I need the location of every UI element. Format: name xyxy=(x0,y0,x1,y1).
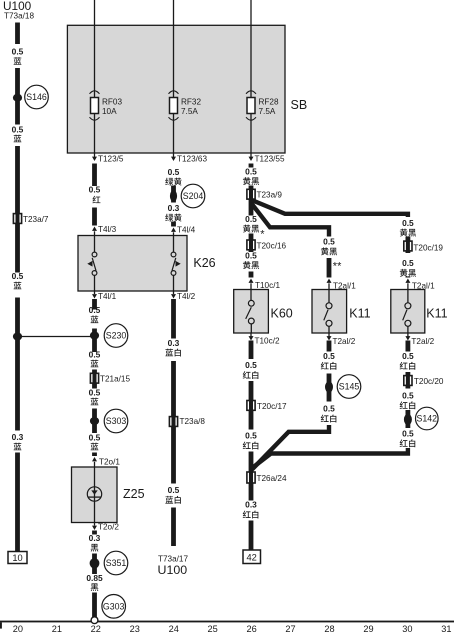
terminal T123/55 exit arrow xyxy=(249,153,285,164)
wire label 0.5 blue xyxy=(12,47,24,65)
svg-text:T123/5: T123/5 xyxy=(98,155,124,164)
terminal T123/63 exit arrow xyxy=(171,153,207,164)
terminal T73a/17 label xyxy=(158,555,188,564)
svg-text:0.3: 0.3 xyxy=(89,533,101,543)
wire col2 to Z25 xyxy=(92,453,97,457)
junction to S230 xyxy=(13,333,22,341)
wire label 0.3 black xyxy=(89,533,101,552)
svg-text:T4l/3: T4l/3 xyxy=(98,225,117,234)
label K60 xyxy=(271,306,293,320)
svg-text:0.5: 0.5 xyxy=(245,431,257,441)
svg-text:24: 24 xyxy=(169,624,179,634)
connector T23a/7 xyxy=(13,212,49,224)
junction S303 xyxy=(90,417,99,425)
svg-text:T2o/2: T2o/2 xyxy=(98,523,119,532)
grid numbers 20-31 xyxy=(13,624,452,634)
junction S230 xyxy=(90,332,99,340)
svg-text:T20c/17: T20c/17 xyxy=(257,402,287,411)
connector T21a/15 xyxy=(90,372,130,384)
wire col5 to K11 xyxy=(327,258,332,278)
svg-text:T2al/2: T2al/2 xyxy=(333,337,356,346)
svg-text:Z25: Z25 xyxy=(123,487,145,501)
ground rail xyxy=(0,621,454,623)
wire col6 to S142 xyxy=(406,410,411,428)
terminal T2al/1 entry arrow (right K11) xyxy=(405,279,435,291)
svg-text:0.5: 0.5 xyxy=(245,360,257,370)
connector T20c/20 xyxy=(404,374,444,386)
wire col4 to terminal 42 xyxy=(249,521,254,551)
wire label 0.5 yellow-black xyxy=(243,167,259,186)
wire label 0.5 yellow-black xyxy=(243,251,259,270)
svg-text:T23a/8: T23a/8 xyxy=(180,417,206,426)
wire col3 blue-white segment xyxy=(171,299,176,339)
terminal T2al/2 exit arrow (middle K11) xyxy=(327,333,356,346)
wire label 0.5 red-white xyxy=(400,351,416,370)
svg-text:22: 22 xyxy=(91,624,101,634)
left edge tick xyxy=(0,622,2,628)
svg-text:0.3: 0.3 xyxy=(168,338,180,348)
wire from fuse RF28 to SB edge xyxy=(250,114,252,154)
svg-text:42: 42 xyxy=(247,553,257,563)
K26 switch lever left xyxy=(87,258,96,271)
svg-text:T73a/18: T73a/18 xyxy=(4,12,34,21)
K26 switch contact right bottom xyxy=(171,271,176,291)
svg-text:0.5: 0.5 xyxy=(89,305,101,315)
svg-text:**: ** xyxy=(333,261,342,273)
wire col2 black stub xyxy=(92,531,97,535)
splice S303 circle xyxy=(104,409,128,433)
node U100 label (top left) xyxy=(3,0,32,13)
svg-text:K11: K11 xyxy=(349,306,370,320)
svg-text:T4l/1: T4l/1 xyxy=(98,292,117,301)
ground connection circle at rail xyxy=(91,617,98,624)
wire col4 to T23a/9 xyxy=(249,186,254,204)
svg-text:0.5: 0.5 xyxy=(12,47,24,57)
K26 switch contact right top xyxy=(171,236,176,257)
fuse RF03 10A xyxy=(90,91,123,120)
svg-text:0.5: 0.5 xyxy=(89,433,101,443)
K60 switch symbol xyxy=(246,290,255,334)
svg-text:0.5: 0.5 xyxy=(323,237,335,247)
svg-text:0.5: 0.5 xyxy=(12,125,24,135)
svg-text:0.3: 0.3 xyxy=(245,500,257,510)
K26 switch contact left bottom xyxy=(92,271,97,291)
svg-text:K11: K11 xyxy=(426,306,447,320)
supply wire into fuse RF03 xyxy=(94,0,96,98)
wire col1 segment to S146 xyxy=(15,68,20,125)
wire col3 end segment xyxy=(171,508,176,547)
junction S351 xyxy=(90,558,100,568)
wire col4 to K60 xyxy=(249,272,254,278)
wire col6 red-white segment xyxy=(406,341,411,352)
wire label 0.5 red-white xyxy=(400,391,416,410)
label K26 xyxy=(193,256,215,270)
relay K11 box (right) xyxy=(391,290,425,334)
supply wire into fuse RF28 xyxy=(250,0,252,98)
svg-text:K60: K60 xyxy=(271,306,293,320)
svg-text:0.5: 0.5 xyxy=(89,388,101,398)
terminal T4l/4 entry arrow xyxy=(171,226,196,236)
svg-text:27: 27 xyxy=(285,624,295,634)
wire col6 to T20c/19 xyxy=(406,237,411,254)
svg-text:RF03: RF03 xyxy=(102,98,122,107)
terminal T123/5 exit arrow xyxy=(92,153,124,164)
wire label 0.5 blue xyxy=(89,305,101,323)
svg-text:28: 28 xyxy=(324,624,334,634)
wire col2 to ground G303 xyxy=(92,593,97,619)
wire col2 through T21a/15 xyxy=(92,370,97,389)
svg-text:26: 26 xyxy=(246,624,256,634)
svg-text:0.5: 0.5 xyxy=(323,351,335,361)
wire label 0.5 blue xyxy=(12,125,24,143)
svg-text:SB: SB xyxy=(291,98,308,112)
svg-text:0.3: 0.3 xyxy=(12,432,24,442)
splice S146 circle xyxy=(25,85,49,109)
svg-text:23: 23 xyxy=(130,624,140,634)
wire label 0.3 red-white xyxy=(243,500,259,519)
wire from fuse RF32 to SB edge xyxy=(173,114,175,154)
terminal box 42 xyxy=(243,550,261,564)
wire col1 segment to T23a/7 xyxy=(15,146,20,273)
wire junction col1 to S230 xyxy=(18,336,93,338)
svg-text:0.85: 0.85 xyxy=(86,573,103,583)
wire col6 through T20c/20 xyxy=(406,372,411,389)
wire col2 to S230 xyxy=(92,329,97,353)
wire col6 to K11 xyxy=(406,277,411,278)
fuse RF32 7.5A xyxy=(169,91,202,120)
svg-text:S146: S146 xyxy=(26,92,47,102)
svg-text:T23a/9: T23a/9 xyxy=(257,190,283,199)
svg-text:0.5: 0.5 xyxy=(323,404,335,414)
wire col2 blue segment xyxy=(92,299,97,310)
svg-text:G303: G303 xyxy=(103,601,125,611)
wire label 0.5 green-yellow xyxy=(165,167,181,186)
fuse RF28 7.5A xyxy=(246,91,279,120)
svg-text:0.5: 0.5 xyxy=(402,218,414,228)
wire col4 red-white segment xyxy=(249,341,254,360)
wire label 0.5 blue xyxy=(89,433,101,451)
relay K11 box (middle) xyxy=(312,290,347,334)
connector T26a/24 xyxy=(247,471,287,484)
wire label 0.5 red-white xyxy=(400,429,416,448)
svg-text:0.5: 0.5 xyxy=(402,258,414,268)
svg-text:T21a/15: T21a/15 xyxy=(100,375,130,384)
wire label 0.5 blue-white xyxy=(165,485,180,504)
K26 switch lever right xyxy=(172,258,181,271)
svg-text:0.5: 0.5 xyxy=(12,271,24,281)
wire col2 red to K26 xyxy=(92,208,97,226)
terminal T2al/1 entry arrow (middle K11) xyxy=(327,279,357,291)
junction S145 xyxy=(325,381,333,392)
branch wire T23a/9 to right K11 (upper) xyxy=(252,200,408,217)
wire label 0.5 blue xyxy=(89,388,101,406)
wire col1 from T73a/18 xyxy=(15,23,20,45)
svg-text:S142: S142 xyxy=(417,414,438,424)
svg-text:7.5A: 7.5A xyxy=(181,107,198,116)
wire label 0.5 red-white xyxy=(243,360,259,379)
svg-text:20: 20 xyxy=(13,624,23,634)
wire label 0.3 blue xyxy=(12,432,24,450)
relay K60 box xyxy=(234,290,269,334)
svg-text:0.5: 0.5 xyxy=(168,485,180,495)
K26 switch contact left top xyxy=(92,236,97,257)
wire col4 stub below T123/55 xyxy=(249,164,254,168)
terminal T4l/1 exit arrow xyxy=(92,291,117,301)
svg-text:30: 30 xyxy=(402,624,412,634)
wire label 0.5 blue xyxy=(89,350,101,368)
svg-text:0.5: 0.5 xyxy=(89,350,101,360)
svg-text:0.5: 0.5 xyxy=(245,251,257,261)
wire label 0.5 red xyxy=(89,185,101,204)
terminal T2o/1 entry arrow xyxy=(92,457,120,467)
svg-text:25: 25 xyxy=(208,624,218,634)
svg-text:0.5: 0.5 xyxy=(402,351,414,361)
svg-text:0.5: 0.5 xyxy=(245,167,257,177)
wire label 0.5 yellow-black xyxy=(400,258,416,277)
junction S146 xyxy=(13,94,22,102)
junction S142 xyxy=(404,414,412,425)
wire col5 red-white segment xyxy=(327,341,332,352)
terminal T10c/1 entry arrow xyxy=(249,279,281,291)
terminal T4l/3 entry arrow xyxy=(92,225,117,236)
wire label 0.5 red-white xyxy=(243,431,259,450)
wire col5 to S145 xyxy=(327,374,332,402)
svg-text:T4l/2: T4l/2 xyxy=(177,292,196,301)
splice S230 circle xyxy=(104,324,128,348)
footnote ** xyxy=(333,261,342,273)
splice S351 circle xyxy=(104,551,128,575)
node U100 label (bottom) xyxy=(158,563,188,577)
wire label 0.5 yellow-black with footnote xyxy=(243,214,265,240)
junction S204 xyxy=(170,190,177,202)
svg-text:RF28: RF28 xyxy=(259,98,279,107)
wire label 0.85 black xyxy=(86,573,103,591)
svg-text:S303: S303 xyxy=(106,416,127,426)
svg-text:10A: 10A xyxy=(102,107,117,116)
svg-text:0.5: 0.5 xyxy=(402,429,414,439)
svg-text:0.5: 0.5 xyxy=(245,214,257,224)
svg-text:T20c/20: T20c/20 xyxy=(414,377,444,386)
terminal T2o/2 exit arrow xyxy=(92,523,119,532)
wire col3 to S204 xyxy=(171,186,176,203)
wire col4 through T20c/17 xyxy=(249,381,254,430)
svg-text:T123/55: T123/55 xyxy=(255,155,285,164)
terminal T4l/2 exit arrow xyxy=(171,291,196,301)
wire col1 to terminal 10 xyxy=(15,453,20,552)
heater element Z25 box xyxy=(72,467,118,523)
connector T20c/19 xyxy=(404,240,444,253)
wire col4 to T20c/16 xyxy=(249,234,254,253)
wire label 0.5 blue xyxy=(12,271,24,289)
fuse box SB (outline) xyxy=(67,25,285,153)
wire col1 segment through junction to S230 branch xyxy=(15,298,20,431)
svg-text:T2o/1: T2o/1 xyxy=(99,458,120,467)
label K11 (right) xyxy=(426,306,447,320)
splice S204 circle xyxy=(181,184,205,208)
supply wire into fuse RF32 xyxy=(173,0,175,98)
svg-text:S230: S230 xyxy=(106,331,127,341)
svg-text:T23a/7: T23a/7 xyxy=(23,215,49,224)
wire from fuse RF03 to SB edge xyxy=(94,114,96,154)
terminal box 10 xyxy=(8,552,27,564)
wire col4 yellow-black segment xyxy=(249,204,254,216)
svg-text:T123/63: T123/63 xyxy=(177,155,207,164)
svg-text:RF32: RF32 xyxy=(181,98,201,107)
connector T20c/17 xyxy=(247,399,287,411)
wire label 0.3 blue-white xyxy=(165,338,180,357)
wire label 0.5 red-white xyxy=(321,404,337,423)
svg-text:S204: S204 xyxy=(183,191,204,201)
svg-text:T2al/2: T2al/2 xyxy=(411,337,434,346)
connector T23a/8 xyxy=(169,415,205,427)
wire col3 to K26 xyxy=(171,222,176,227)
Z25 element symbol xyxy=(87,467,101,523)
wire label 0.5 red-white xyxy=(321,351,337,370)
svg-text:7.5A: 7.5A xyxy=(259,107,276,116)
wire label 0.5 yellow-black (middle K11) xyxy=(321,237,337,256)
branch wire from S142 column joining col4 xyxy=(252,448,408,469)
branch wire from S145 column joining col4 xyxy=(252,425,329,470)
terminal T2al/2 exit arrow (right K11) xyxy=(405,333,434,346)
svg-text:T10c/1: T10c/1 xyxy=(255,281,280,290)
svg-text:*: * xyxy=(260,228,265,240)
wire col2 red segment xyxy=(92,164,97,187)
splice S142 circle xyxy=(416,407,439,430)
svg-text:T20c/16: T20c/16 xyxy=(257,242,287,251)
wire col3 through T23a/8 xyxy=(171,361,176,484)
svg-text:0.5: 0.5 xyxy=(89,185,101,195)
wire label 0.5 yellow-black (right K11) xyxy=(400,218,416,237)
svg-text:0.3: 0.3 xyxy=(168,203,180,213)
connector T20c/16 xyxy=(247,239,287,251)
svg-text:U100: U100 xyxy=(158,563,188,577)
svg-text:0.5: 0.5 xyxy=(402,391,414,401)
branch wire T23a/9 to middle K11 (lower) xyxy=(252,204,330,237)
label K11 (middle) xyxy=(349,306,370,320)
relay K26 box xyxy=(78,236,187,292)
connector T23a/9 xyxy=(247,188,283,200)
svg-text:T20c/19: T20c/19 xyxy=(413,244,443,253)
label Z25 xyxy=(123,487,145,501)
svg-text:29: 29 xyxy=(363,624,373,634)
ground G303 circle xyxy=(102,595,126,619)
svg-text:0.5: 0.5 xyxy=(168,167,180,177)
svg-text:31: 31 xyxy=(441,624,451,634)
svg-text:K26: K26 xyxy=(193,256,215,270)
svg-text:21: 21 xyxy=(52,624,62,634)
K11 switch symbol (right) xyxy=(403,290,411,334)
svg-text:T4l/4: T4l/4 xyxy=(177,226,196,235)
label SB xyxy=(291,98,308,112)
wire col4 junction segment xyxy=(249,452,254,501)
terminal T10c/2 exit arrow xyxy=(249,333,280,346)
svg-text:S351: S351 xyxy=(106,558,127,568)
wire col2 to S303 xyxy=(92,409,97,434)
K11 switch symbol (middle) xyxy=(324,290,332,334)
splice S145 circle xyxy=(337,375,361,399)
svg-text:S145: S145 xyxy=(339,382,360,392)
terminal T73a/18 label xyxy=(4,12,34,21)
svg-text:T26a/24: T26a/24 xyxy=(257,474,287,483)
wire col2 to S351 xyxy=(92,554,97,575)
svg-text:T10c/2: T10c/2 xyxy=(255,337,280,346)
wire label 0.3 green-yellow xyxy=(165,203,181,222)
svg-text:10: 10 xyxy=(12,553,22,563)
